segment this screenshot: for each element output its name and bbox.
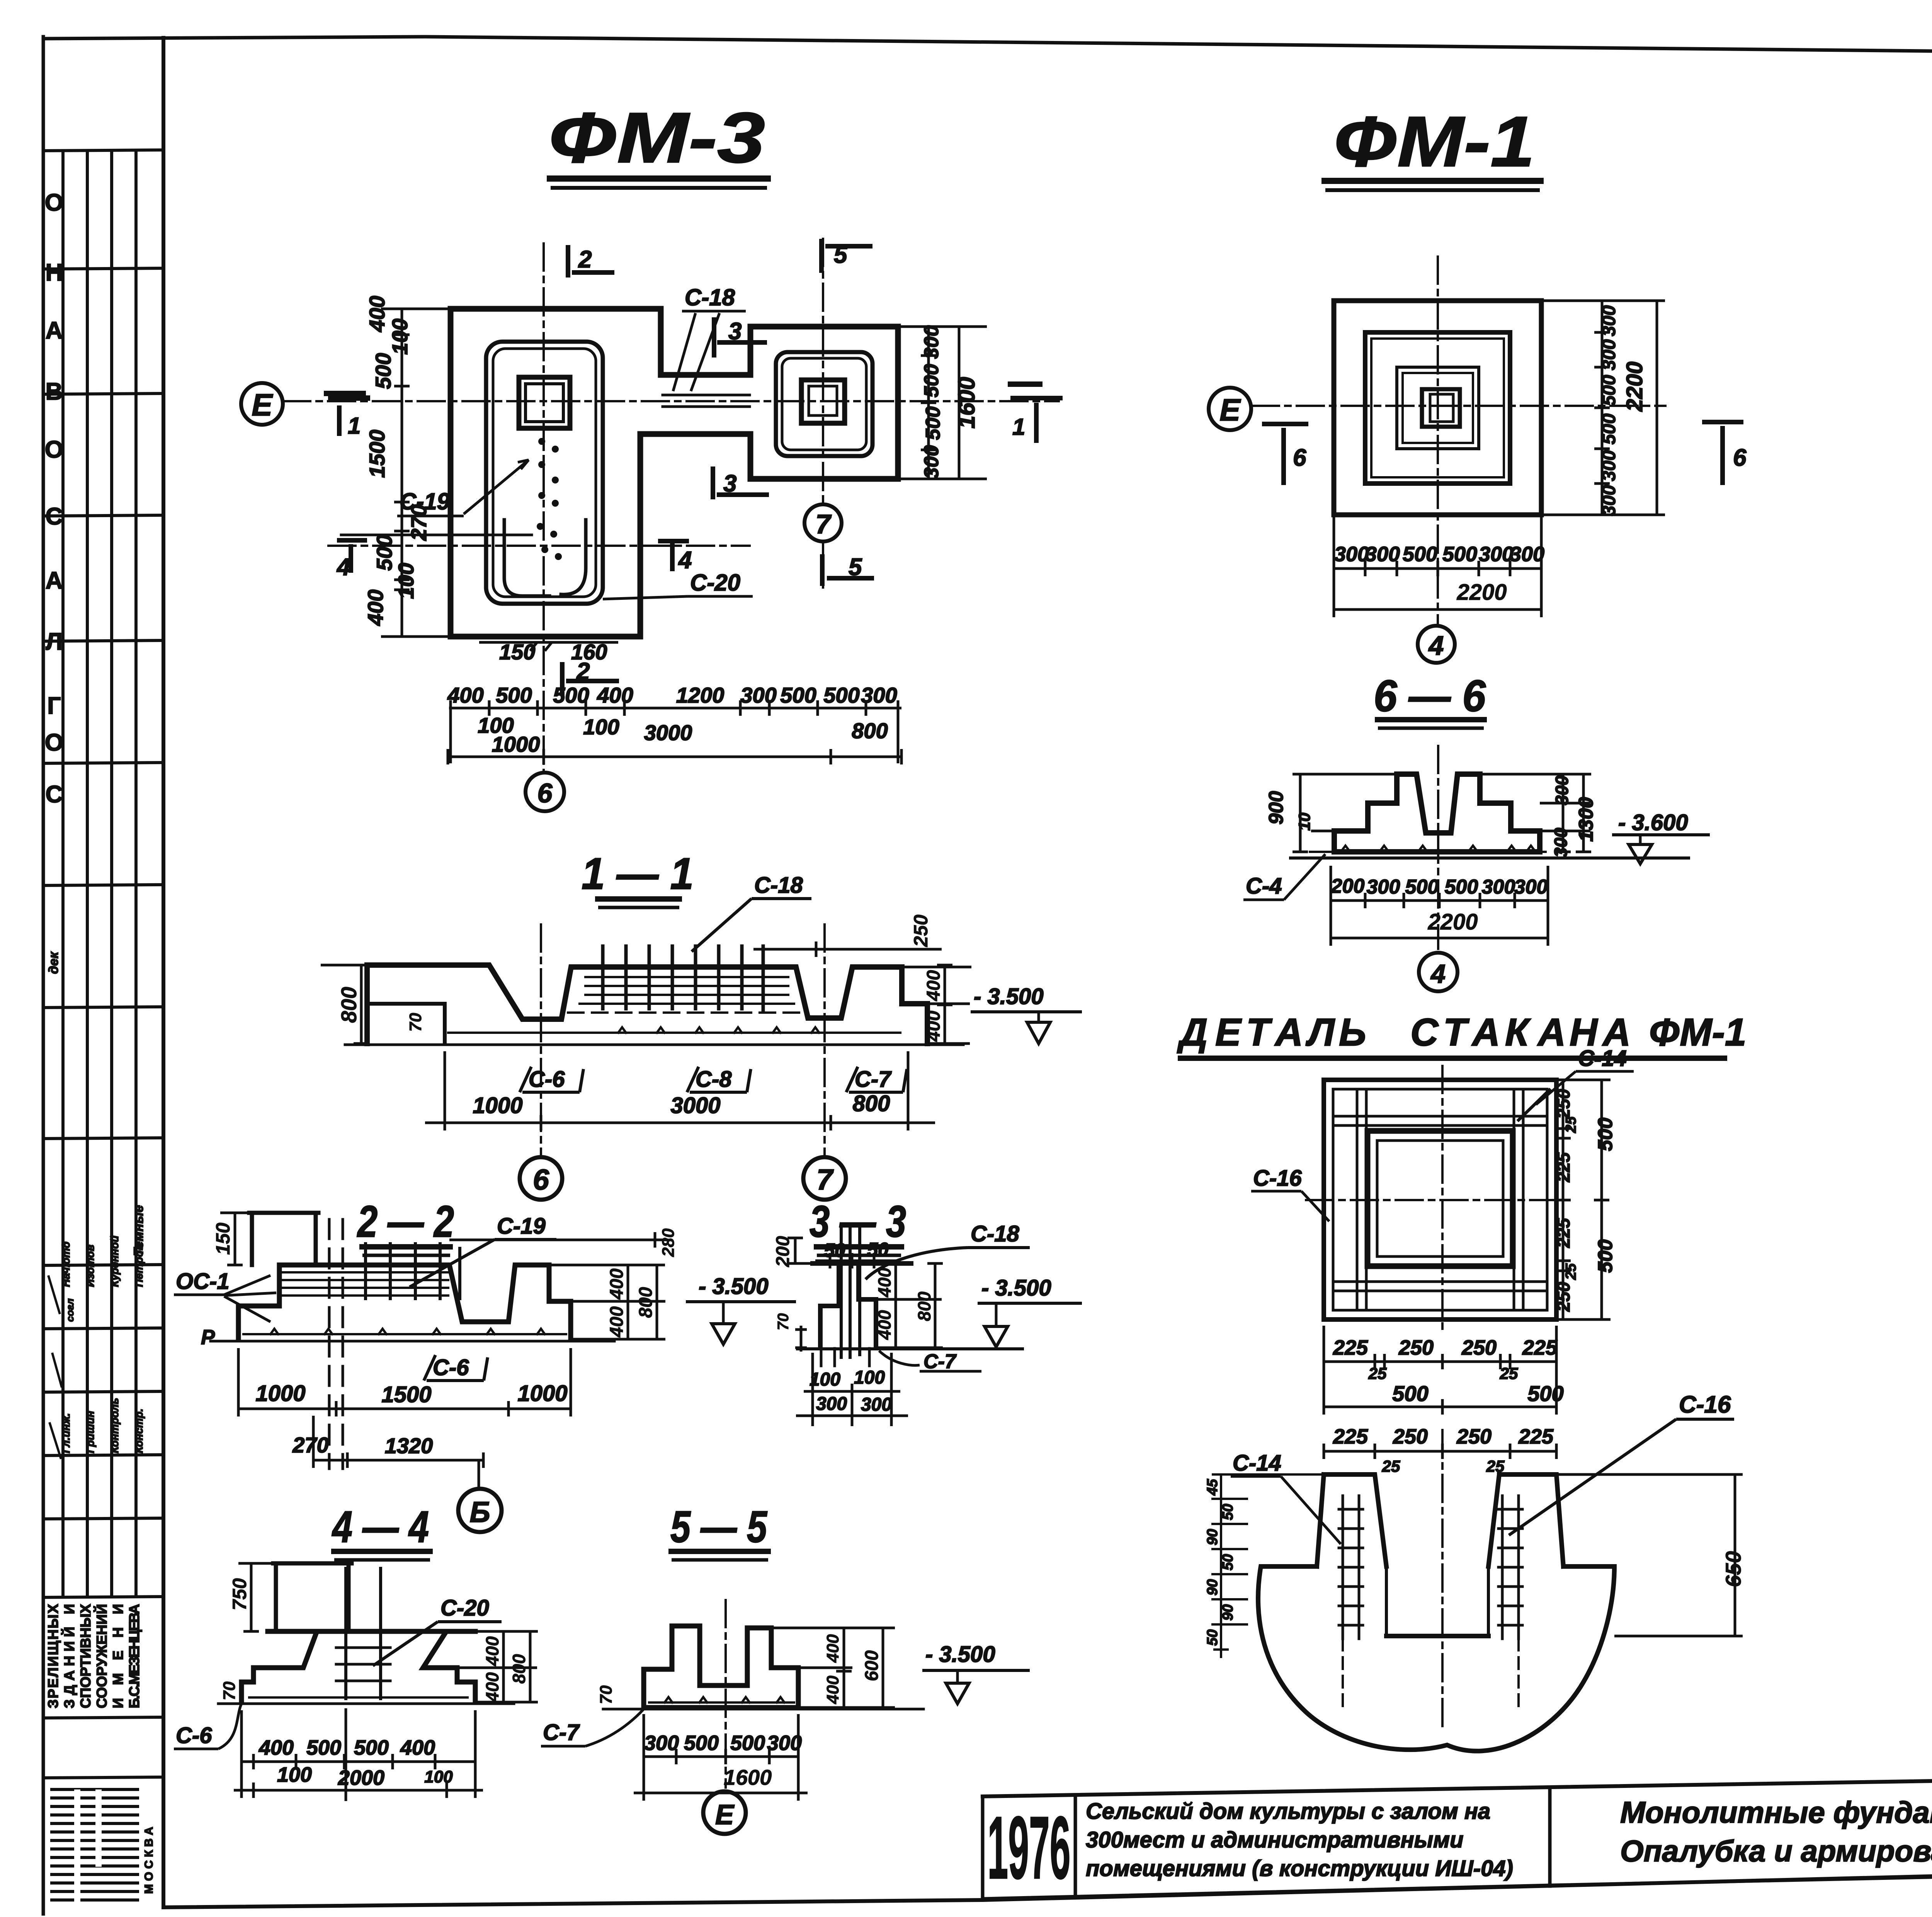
svg-text:100: 100 [854, 1367, 885, 1388]
axis circle 6 under plan [526, 773, 564, 811]
plan bottom dim row C [478, 713, 888, 756]
svg-text:1 — 1: 1 — 1 [582, 849, 694, 899]
svg-text:А: А [1471, 1011, 1500, 1054]
svg-text:СООРУЖЕНИЙ: СООРУЖЕНИЙ [94, 1604, 110, 1708]
svg-text:А: А [1537, 1011, 1566, 1054]
svg-text:С-14: С-14 [1578, 1046, 1627, 1071]
svg-text:1200: 1200 [676, 683, 724, 707]
glass plan right dims col1 [1553, 1089, 1617, 1312]
4-4 right dims [457, 1631, 538, 1702]
column glass square left [519, 377, 570, 428]
plan bottom dim row A 150/160 [499, 640, 607, 664]
svg-text:500: 500 [823, 683, 859, 707]
section marker 6 left of FM-1 [1262, 424, 1308, 485]
svg-text:2 — 2: 2 — 2 [357, 1197, 454, 1246]
axis circle 7 under plan [804, 504, 842, 541]
svg-text:250: 250 [1456, 1425, 1492, 1448]
left strip: signature rows scribbles [48, 1275, 62, 1459]
svg-text:400: 400 [823, 1675, 842, 1704]
column glass square right [801, 380, 845, 423]
4-4 left dim 750 [238, 1563, 273, 1631]
svg-text:250: 250 [910, 914, 932, 947]
svg-text:300: 300 [920, 325, 943, 359]
svg-text:400: 400 [923, 970, 944, 1001]
bottom title block [983, 1768, 1932, 1899]
svg-text:800: 800 [636, 1287, 656, 1318]
left strip grid [43, 150, 163, 1778]
svg-text:А: А [46, 317, 63, 344]
svg-text:70: 70 [406, 1013, 425, 1032]
svg-text:300: 300 [740, 683, 776, 707]
svg-text:А: А [1274, 1011, 1303, 1054]
axis E dash-dot line [283, 400, 1059, 402]
plan left dim lines [381, 309, 451, 637]
svg-text:200: 200 [1331, 875, 1365, 897]
glass section top dims [1333, 1425, 1554, 1475]
svg-text:90: 90 [1204, 1579, 1221, 1595]
svg-text:300: 300 [1367, 876, 1400, 898]
6-6 right dims [1551, 775, 1597, 857]
svg-text:300: 300 [1479, 543, 1514, 566]
svg-text:270: 270 [406, 504, 431, 541]
svg-text:50: 50 [1220, 1504, 1236, 1520]
svg-text:С-6: С-6 [529, 1067, 565, 1092]
svg-text:С-16: С-16 [1253, 1166, 1302, 1191]
svg-text:СПОРТИВНЫХ: СПОРТИВНЫХ [78, 1604, 94, 1708]
left strip: СОГЛАСОВАНО letters bottom-up [45, 189, 63, 808]
svg-text:- 3.600: - 3.600 [1618, 810, 1688, 835]
svg-text:ФМ-1: ФМ-1 [1649, 1011, 1747, 1054]
svg-text:500: 500 [1594, 1118, 1617, 1151]
svg-text:5 — 5: 5 — 5 [670, 1502, 768, 1552]
svg-text:3000: 3000 [644, 720, 692, 745]
outer square [1334, 301, 1541, 515]
plan left dimension texts (rotated) [363, 296, 431, 626]
svg-text:Т: Т [1443, 1011, 1470, 1054]
glass section right dim 650 [1556, 1474, 1743, 1636]
svg-text:270: 270 [292, 1433, 328, 1457]
svg-text:О: О [45, 436, 63, 463]
Деталь стакана heading [1177, 1011, 1747, 1054]
section marker 4 left [337, 540, 367, 573]
svg-text:300: 300 [767, 1731, 802, 1755]
svg-text:Б.С.МЕЗЕНЦЕВА: Б.С.МЕЗЕНЦЕВА [126, 1604, 142, 1708]
svg-text:400: 400 [597, 683, 633, 707]
svg-text:500: 500 [496, 683, 532, 707]
section marker 1 left [337, 405, 342, 436]
svg-text:помещениями (в конструкции ИШ-: помещениями (в конструкции ИШ-04) [1086, 1856, 1513, 1881]
svg-text:500: 500 [684, 1731, 719, 1755]
svg-text:3: 3 [728, 318, 742, 345]
svg-text:500: 500 [1594, 1239, 1617, 1273]
svg-text:С-7: С-7 [543, 1720, 580, 1745]
svg-text:С-20: С-20 [690, 570, 740, 596]
top mesh C-18 [580, 977, 794, 1004]
section marker 5 bottom [822, 554, 874, 586]
svg-text:500: 500 [372, 535, 396, 570]
axis circle 4 under 6-6 [1419, 953, 1458, 991]
svg-text:250: 250 [1461, 1336, 1497, 1359]
5-5 right dims [771, 1628, 895, 1708]
axis 7 vertical dash-dot [822, 239, 824, 587]
svg-text:100: 100 [424, 1767, 453, 1786]
svg-text:С-16: С-16 [1679, 1391, 1731, 1418]
svg-text:300: 300 [816, 1394, 847, 1414]
svg-text:5: 5 [849, 554, 862, 581]
top mesh [282, 1272, 448, 1296]
svg-text:300мест и административными: 300мест и административными [1086, 1827, 1463, 1852]
svg-text:1000: 1000 [517, 1381, 567, 1406]
svg-text:Гришин: Гришин [84, 1411, 96, 1453]
section marker 2 bottom [562, 662, 619, 696]
body outline with wavy bottom [1258, 1566, 1614, 1751]
svg-text:100: 100 [388, 318, 412, 354]
svg-text:О: О [45, 189, 63, 216]
bottom mesh line [448, 1032, 900, 1034]
svg-text:7: 7 [816, 1163, 834, 1196]
svg-text:100: 100 [277, 1763, 312, 1786]
2-2 left dim 150 [220, 1213, 249, 1265]
svg-text:90: 90 [1220, 1604, 1236, 1621]
svg-text:6: 6 [533, 1163, 549, 1196]
glass detail plan [1306, 1066, 1575, 1334]
bottom rebar C-4 line [1310, 851, 1546, 853]
svg-text:45: 45 [1204, 1479, 1221, 1496]
svg-text:дек: дек [46, 951, 61, 974]
glass section [1258, 1430, 1614, 1751]
section 4 horizontal axis dash-dot [328, 545, 750, 547]
svg-text:500: 500 [306, 1736, 341, 1759]
svg-text:400: 400 [607, 1306, 627, 1338]
plan bottom dim row B [447, 683, 897, 707]
svg-text:6: 6 [1293, 444, 1306, 471]
svg-text:50: 50 [1204, 1629, 1221, 1646]
axis E dash-dot horizontal [1252, 405, 1665, 407]
column glass square [1422, 389, 1460, 427]
svg-text:500: 500 [780, 683, 816, 707]
svg-text:500: 500 [553, 683, 589, 707]
svg-text:С-14: С-14 [1233, 1451, 1281, 1476]
svg-text:225: 225 [1333, 1336, 1368, 1359]
outer square [1324, 1080, 1556, 1319]
svg-text:5: 5 [834, 242, 848, 268]
plan right dim stack [920, 325, 980, 479]
section marker 1 right [1010, 398, 1063, 443]
svg-text:О: О [45, 729, 63, 756]
svg-text:Р: Р [201, 1326, 215, 1349]
svg-text:1000: 1000 [255, 1381, 305, 1406]
section marker 2 top [568, 245, 614, 278]
svg-text:Констр.: Констр. [133, 1408, 145, 1453]
1-1 bottom dims [473, 1091, 890, 1118]
formwork panel lines [1333, 1116, 1547, 1291]
svg-text:Опалубка и армирование: Опалубка и армирование [1620, 1834, 1932, 1868]
1-1 right dims [753, 941, 971, 1044]
svg-text:400: 400 [259, 1736, 294, 1759]
svg-text:3: 3 [723, 470, 736, 497]
svg-text:70: 70 [775, 1313, 792, 1331]
svg-text:800: 800 [853, 1091, 890, 1116]
svg-text:90: 90 [1204, 1529, 1221, 1545]
section 1-1 profile [345, 924, 963, 1156]
svg-text:400: 400 [874, 1267, 895, 1297]
envelope outline FM-3 [451, 309, 898, 637]
svg-text:С: С [1410, 1011, 1439, 1054]
svg-text:300: 300 [1482, 876, 1515, 898]
svg-text:Гл.инж.: Гл.инж. [60, 1413, 72, 1453]
svg-text:500: 500 [1527, 1381, 1563, 1406]
svg-text:225: 225 [1518, 1425, 1554, 1448]
left pad step rounded rect outer [486, 342, 603, 604]
svg-text:6: 6 [537, 778, 553, 808]
svg-text:- 3.500: - 3.500 [981, 1275, 1051, 1301]
svg-text:ФМ-3: ФМ-3 [549, 98, 765, 178]
svg-text:500: 500 [371, 353, 395, 389]
right pad step rounded rect [776, 352, 872, 456]
svg-text:10: 10 [1295, 813, 1313, 831]
svg-text:800: 800 [337, 987, 361, 1023]
svg-text:6 — 6: 6 — 6 [1374, 671, 1486, 721]
svg-text:300: 300 [1365, 543, 1400, 566]
svg-text:К: К [1505, 1011, 1531, 1054]
axis circle Б under 2-2 [458, 1489, 502, 1532]
svg-text:Монолитные фундаменты ФМ-1;: Монолитные фундаменты ФМ-1; ФМ-3 [1620, 1795, 1932, 1829]
svg-text:Куренной: Куренной [109, 1236, 121, 1287]
svg-text:4: 4 [336, 554, 350, 581]
2-2 right dims [449, 1232, 668, 1339]
project description [1086, 1799, 1513, 1881]
svg-text:25: 25 [1382, 1457, 1400, 1475]
axis 4 dash-dot vertical [1437, 257, 1439, 623]
step square 2 [1365, 332, 1510, 484]
svg-text:Контроль: Контроль [109, 1398, 121, 1453]
svg-text:3 — 3: 3 — 3 [810, 1197, 906, 1246]
svg-text:Петров: Петров [133, 1244, 145, 1287]
svg-text:650: 650 [1721, 1551, 1745, 1587]
3-3 left dim 200 [787, 1238, 813, 1263]
svg-text:М О С К В А: М О С К В А [143, 1827, 155, 1894]
inner bottom brackets of left pad [504, 520, 549, 596]
left strip: institute stamp text [45, 1604, 142, 1708]
svg-text:225: 225 [1333, 1425, 1368, 1448]
svg-text:Сельский дом культуры с залом: Сельский дом культуры с залом на [1086, 1799, 1490, 1824]
svg-text:А: А [46, 567, 63, 594]
svg-text:70: 70 [597, 1685, 616, 1704]
cavity bottom [1386, 1634, 1488, 1638]
svg-text:Нач.отд: Нач.отд [60, 1241, 72, 1287]
svg-text:- 3.500: - 3.500 [699, 1274, 769, 1299]
axis 6 vertical dash-dot [543, 243, 545, 772]
rebar ladders C-14 [1343, 1496, 1359, 1639]
svg-text:С-8: С-8 [696, 1067, 732, 1092]
svg-text:400: 400 [482, 1672, 502, 1702]
svg-text:750: 750 [229, 1578, 250, 1611]
section 5-5 profile [603, 1600, 923, 1788]
svg-text:150: 150 [212, 1222, 234, 1255]
svg-text:800: 800 [509, 1654, 529, 1684]
svg-text:500: 500 [920, 364, 943, 398]
axis E break marks [327, 393, 367, 398]
svg-text:С-19: С-19 [497, 1214, 546, 1239]
svg-text:100: 100 [583, 715, 619, 739]
svg-text:4: 4 [1430, 959, 1446, 989]
left wall [1317, 1474, 1386, 1566]
svg-text:800: 800 [852, 718, 888, 743]
svg-text:70: 70 [220, 1681, 239, 1700]
svg-text:С-18: С-18 [754, 873, 803, 898]
svg-text:2200: 2200 [1427, 909, 1478, 935]
svg-text:1: 1 [1012, 414, 1025, 440]
svg-text:7: 7 [816, 509, 832, 539]
3-3 bottom dims [810, 1367, 885, 1390]
right wall [1488, 1474, 1563, 1566]
axis circle 7 (1-1) [803, 1157, 846, 1200]
svg-text:С: С [46, 503, 63, 530]
svg-text:С-4: С-4 [1246, 873, 1282, 899]
svg-text:300: 300 [861, 1394, 892, 1415]
sheet name [1620, 1795, 1932, 1868]
svg-text:1976: 1976 [988, 1798, 1071, 1897]
svg-text:С-6: С-6 [176, 1723, 212, 1748]
heading underline [1178, 1056, 1727, 1061]
svg-text:1320: 1320 [385, 1433, 433, 1458]
corner diagonal C-14 [1519, 1090, 1549, 1120]
svg-text:400: 400 [874, 1310, 895, 1340]
svg-text:500: 500 [1442, 543, 1477, 566]
left stamp strip right edge [162, 38, 165, 1907]
svg-text:Г: Г [47, 693, 61, 719]
svg-text:С-6: С-6 [433, 1355, 469, 1380]
svg-text:3000: 3000 [670, 1093, 720, 1118]
svg-text:Е: Е [1215, 1011, 1242, 1054]
svg-text:Н: Н [46, 259, 63, 286]
svg-text:300: 300 [1514, 876, 1548, 898]
svg-text:4: 4 [1428, 630, 1444, 661]
C-6 C-8 C-7 labels [529, 1067, 892, 1092]
svg-text:400: 400 [482, 1636, 502, 1666]
svg-text:С-18: С-18 [971, 1221, 1019, 1246]
svg-text:300: 300 [644, 1731, 679, 1755]
svg-text:400: 400 [400, 1736, 435, 1759]
svg-text:500: 500 [1405, 876, 1439, 898]
270 offset dim line [341, 534, 532, 536]
glass section left dim ladder [1211, 1474, 1324, 1658]
svg-text:400: 400 [363, 589, 388, 626]
svg-text:1500: 1500 [381, 1382, 431, 1407]
svg-text:25: 25 [1563, 1116, 1579, 1133]
svg-text:500: 500 [1445, 876, 1478, 898]
5-5 bottom dims [644, 1731, 802, 1755]
svg-text:1000: 1000 [492, 732, 540, 756]
rebar dots C-19 [537, 438, 562, 560]
svg-text:1600: 1600 [724, 1765, 772, 1789]
center cross dash-dot [1441, 1066, 1444, 1334]
section 3-3 profile [798, 1225, 1022, 1366]
svg-text:1600: 1600 [954, 377, 980, 428]
sheet outer left border [42, 37, 45, 1914]
svg-text:Е: Е [252, 388, 273, 422]
axis 4 dash-dot through section [1437, 746, 1439, 949]
neck rebar lines [663, 395, 750, 407]
section 4-4 profile [218, 1563, 514, 1704]
inner thick square [1367, 1131, 1513, 1266]
svg-text:400: 400 [365, 296, 389, 332]
svg-text:С-20: С-20 [440, 1595, 489, 1621]
axis E circle [241, 383, 283, 425]
svg-text:- 3.500: - 3.500 [974, 984, 1044, 1009]
svg-text:250: 250 [1393, 1425, 1428, 1448]
3-3 right dims [876, 1263, 943, 1348]
svg-text:Изотов: Изотов [84, 1245, 96, 1287]
svg-text:400: 400 [823, 1634, 842, 1663]
plan FM-3 [241, 239, 1059, 772]
svg-text:6: 6 [1733, 444, 1747, 471]
axis circle 6 (1-1) [520, 1157, 562, 1200]
svg-text:2200: 2200 [1622, 361, 1647, 412]
svg-text:50: 50 [1220, 1554, 1236, 1570]
svg-text:Д: Д [1177, 1011, 1207, 1054]
svg-text:500: 500 [1403, 543, 1437, 566]
section marker 5 top [821, 239, 872, 273]
svg-text:800: 800 [914, 1291, 934, 1321]
svg-text:С-7: С-7 [923, 1350, 957, 1373]
section marker 3 lower [713, 466, 769, 499]
axis E circle (FM-1) [1209, 388, 1251, 430]
svg-text:Л: Л [46, 628, 63, 655]
svg-text:1: 1 [348, 413, 361, 439]
svg-text:250: 250 [1398, 1336, 1434, 1359]
4-4 bottom dims [259, 1736, 435, 1759]
axes dash-dot [540, 924, 542, 1156]
1-1 left dim 800 [321, 965, 369, 1044]
pier axis dashed verticals [329, 1219, 343, 1469]
left pad step rounded rect inner [493, 349, 596, 597]
svg-text:И М Е Н И: И М Е Н И [110, 1604, 126, 1708]
svg-text:В: В [46, 378, 63, 405]
svg-text:Т: Т [1246, 1011, 1273, 1054]
svg-text:400: 400 [923, 1011, 944, 1042]
svg-text:50: 50 [867, 1239, 889, 1260]
3-3 top dims 50 50 [824, 1239, 889, 1261]
svg-text:900: 900 [1265, 791, 1287, 825]
plan FM-1 [1209, 257, 1665, 623]
svg-text:С-18: С-18 [685, 284, 735, 310]
center dash-dot [1441, 1430, 1444, 1728]
section marker 3 upper [714, 317, 767, 358]
svg-text:1500: 1500 [365, 430, 389, 478]
svg-text:100: 100 [810, 1369, 840, 1390]
svg-text:Б: Б [469, 1496, 490, 1528]
6-6 left dims [1265, 791, 1313, 831]
svg-text:2: 2 [578, 246, 592, 273]
6-6 bottom dims [1331, 875, 1548, 898]
left strip: handwriting hints [46, 951, 146, 1322]
svg-text:Е: Е [715, 1800, 735, 1830]
sheet top border [43, 37, 1932, 51]
FM-1 right dim stack [1599, 305, 1647, 516]
svg-text:- 3.500: - 3.500 [925, 1642, 995, 1667]
svg-text:500: 500 [922, 407, 944, 440]
svg-text:2200: 2200 [1456, 580, 1507, 605]
svg-text:согл: согл [64, 1299, 76, 1322]
svg-text:400: 400 [607, 1268, 627, 1300]
step square 3 [1397, 367, 1479, 449]
svg-text:Л: Л [1306, 1011, 1335, 1054]
section marker 4 mid [658, 541, 689, 571]
svg-text:ЗДАНИЙ И: ЗДАНИЙ И [61, 1604, 77, 1708]
left strip: hatched logo block [50, 1789, 139, 1902]
svg-text:200: 200 [773, 1236, 793, 1267]
